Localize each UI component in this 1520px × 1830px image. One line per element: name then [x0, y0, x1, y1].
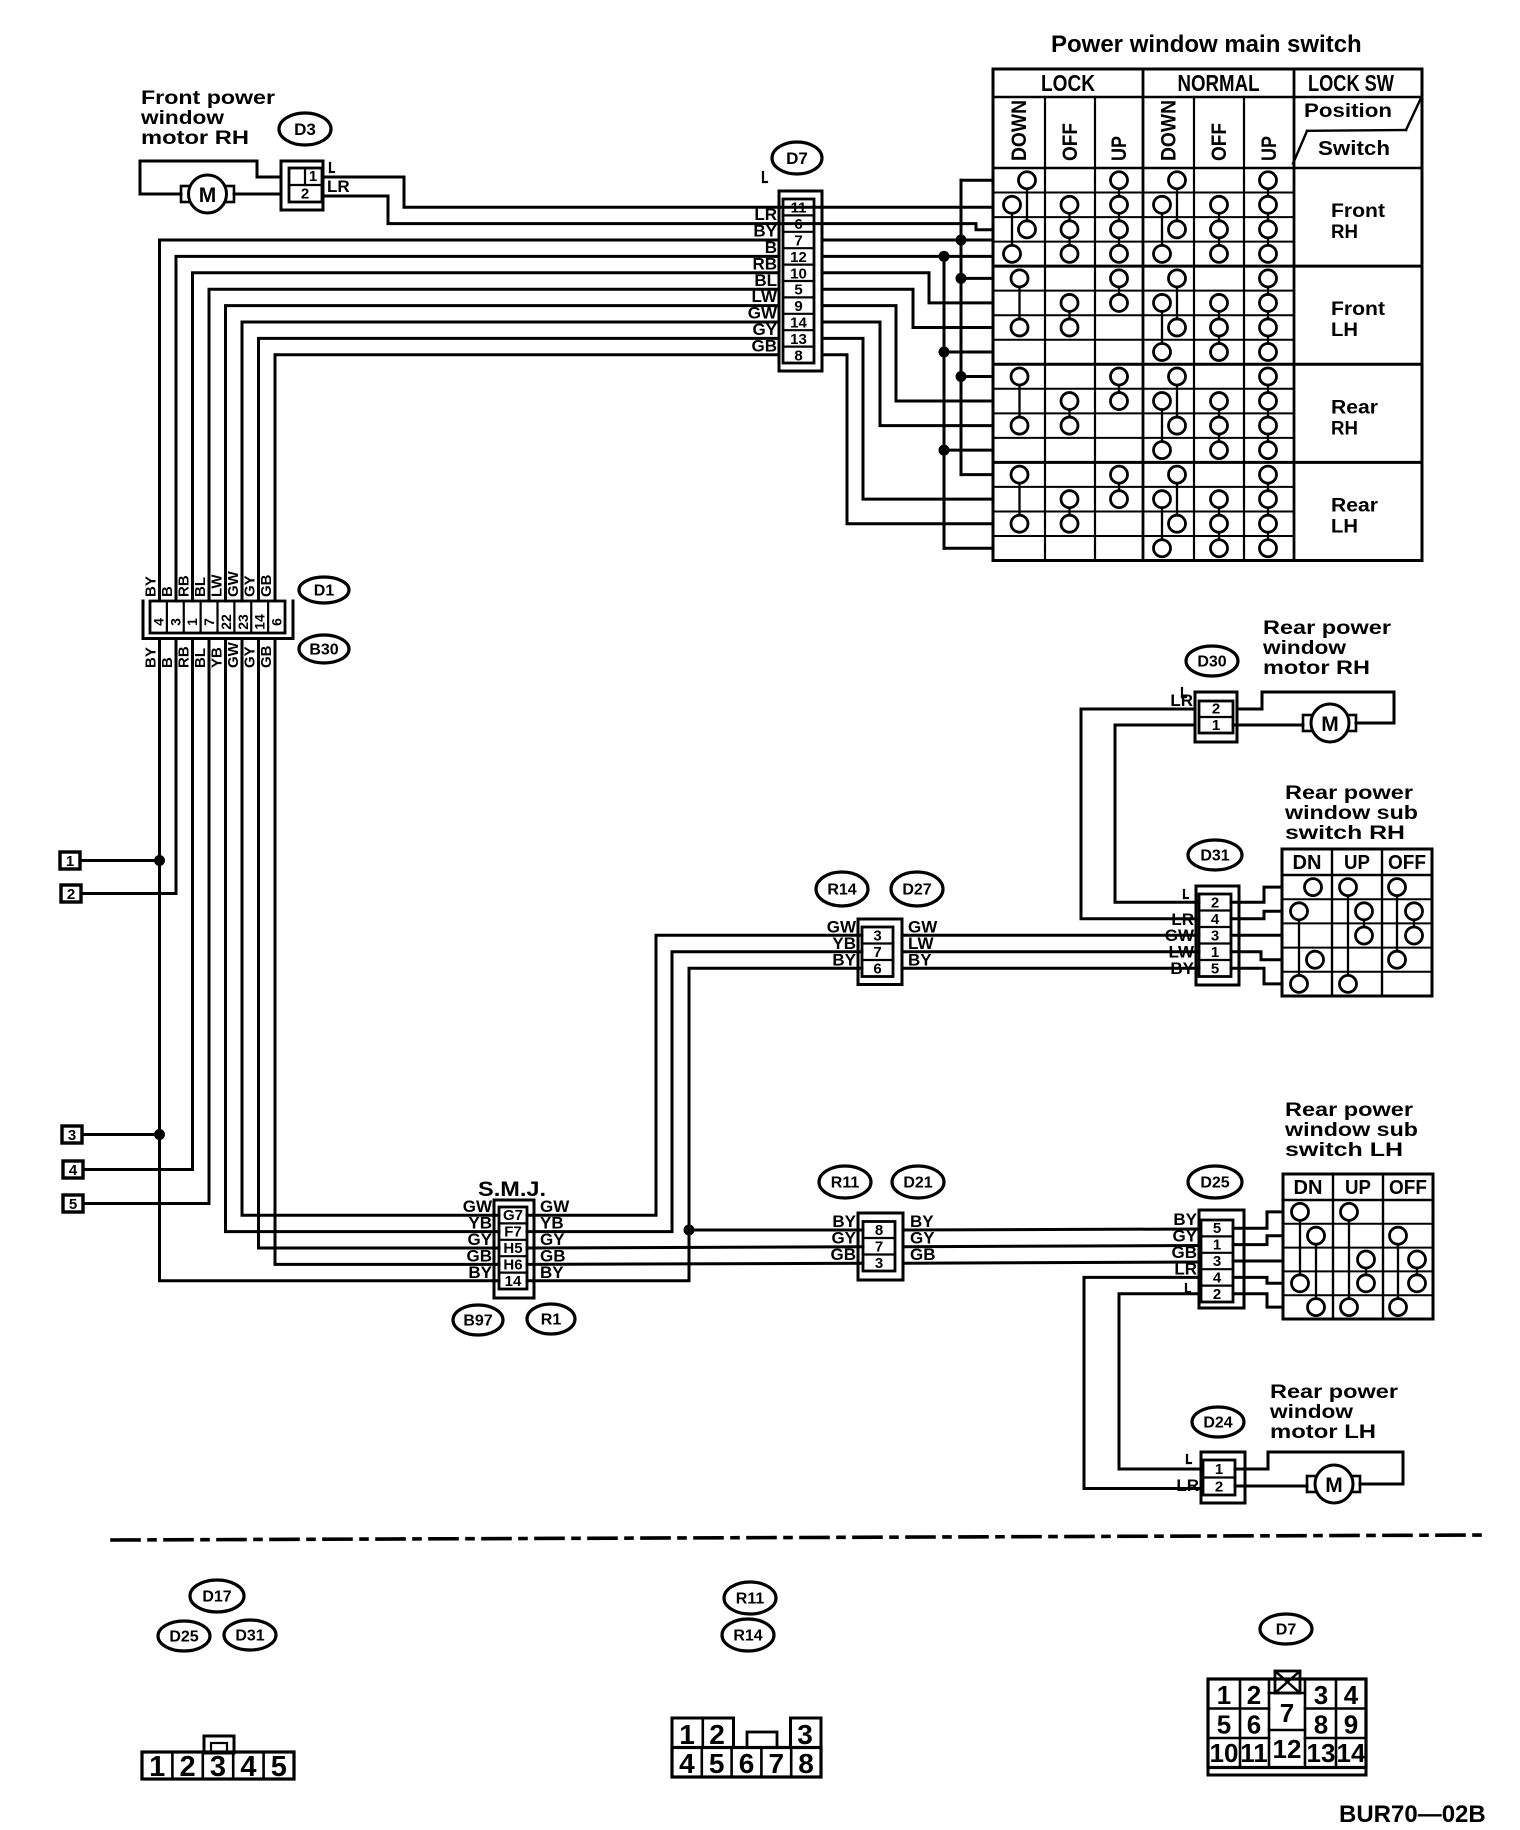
- svg-text:OFF: OFF: [1389, 1177, 1427, 1199]
- svg-text:LR: LR: [327, 177, 350, 196]
- svg-text:R1: R1: [541, 1312, 562, 1329]
- label D7 ellipse (bottom): [1260, 1614, 1312, 1644]
- label: Rear power window motor RH: [1262, 618, 1392, 679]
- svg-text:6: 6: [873, 960, 881, 977]
- svg-text:3: 3: [1211, 927, 1219, 944]
- svg-text:3: 3: [68, 1127, 76, 1144]
- svg-text:2: 2: [1213, 1286, 1221, 1303]
- wire color labels D21 left: [831, 1212, 857, 1264]
- wire GW: B30 down to S.M.J. pin G7: [242, 639, 499, 1216]
- svg-text:Front: Front: [1331, 299, 1386, 320]
- label B97 ellipse: [453, 1305, 503, 1335]
- svg-text:UP: UP: [1345, 1177, 1371, 1199]
- label: Rear power window motor LH: [1269, 1382, 1399, 1443]
- svg-text:switch RH: switch RH: [1285, 823, 1405, 844]
- wire from motor RH to D3 pin 2: [234, 193, 281, 196]
- svg-text:11: 11: [1240, 1738, 1268, 1768]
- svg-text:10: 10: [790, 265, 807, 282]
- svg-text:5: 5: [1217, 1710, 1231, 1740]
- wire D7 pin10 to table row6: [822, 273, 993, 303]
- svg-text:3: 3: [797, 1719, 813, 1750]
- svg-text:1: 1: [1217, 1680, 1231, 1710]
- svg-text:LOCK: LOCK: [1041, 70, 1095, 96]
- svg-text:4: 4: [69, 1162, 78, 1179]
- svg-text:22: 22: [218, 614, 234, 630]
- connector R11/D21: [858, 1213, 903, 1280]
- label D31 ellipse: [1188, 840, 1242, 870]
- svg-text:window sub: window sub: [1284, 803, 1418, 824]
- svg-text:GW: GW: [225, 641, 242, 668]
- svg-text:D17: D17: [202, 1589, 231, 1606]
- drawing number BUR70-02B: [1339, 1801, 1486, 1828]
- svg-text:4: 4: [240, 1751, 256, 1783]
- wire LR: D3 pin1 to D7 pin11: [323, 163, 822, 207]
- svg-text:7: 7: [875, 1238, 883, 1255]
- svg-text:Position: Position: [1304, 101, 1392, 122]
- svg-text:window: window: [1269, 1402, 1353, 1423]
- label D21 ellipse: [892, 1166, 944, 1198]
- junction dots on bus A and bus B: [939, 235, 967, 456]
- svg-text:GB: GB: [258, 574, 275, 597]
- svg-text:motor RH: motor RH: [141, 128, 249, 149]
- label: Front power window motor RH: [140, 88, 276, 149]
- wire GY: D21 to D25 pin 1: [903, 1246, 1199, 1247]
- svg-text:6: 6: [739, 1748, 755, 1779]
- wire BY: S.M.J. to D27 pin 6 with branch junction to R11 pin 8: [527, 968, 863, 1281]
- svg-text:5: 5: [1211, 960, 1219, 977]
- wire RB: D7 to D1 pin: [193, 273, 780, 601]
- rear sub switch LH contacts: [1292, 1203, 1426, 1315]
- wire color labels at D7 left side: [748, 172, 778, 355]
- svg-text:4: 4: [1344, 1680, 1359, 1710]
- wire D24 pin2 to motor: [1235, 1485, 1307, 1488]
- Position / Switch diagonal flag cell: [1293, 98, 1421, 164]
- connector D31: [1196, 886, 1239, 985]
- connector D30: [1195, 692, 1237, 742]
- svg-text:1: 1: [66, 853, 74, 870]
- svg-text:2: 2: [180, 1751, 196, 1783]
- svg-text:7: 7: [794, 233, 802, 250]
- wire node4 to RB line: [83, 1168, 193, 1171]
- svg-text:motor LH: motor LH: [1270, 1422, 1376, 1443]
- svg-text:D7: D7: [1276, 1622, 1297, 1639]
- wire GB: D7 to D1 pin: [275, 355, 779, 601]
- svg-text:RH: RH: [1331, 418, 1358, 439]
- svg-text:2: 2: [301, 186, 309, 203]
- wire node2 to B line: [81, 892, 176, 895]
- svg-text:Front: Front: [1331, 201, 1386, 222]
- wire D7 pin14 to table row11: [822, 322, 993, 426]
- label D1 ellipse: [299, 577, 349, 603]
- svg-text:3: 3: [167, 618, 183, 626]
- svg-text:Rear power: Rear power: [1263, 618, 1392, 639]
- label D24 ellipse: [1192, 1407, 1244, 1437]
- connector D1 / B30 (bulkhead): [143, 601, 293, 639]
- switch contact circles and links, group Rear LH: [1011, 466, 1277, 557]
- wire BY: D27 to D31 pin 5: [902, 967, 1199, 970]
- wire BL: D7 to D1 pin: [209, 289, 779, 601]
- wires D25 pins to LH sub table rows: [1233, 1212, 1283, 1307]
- svg-text:D31: D31: [1200, 848, 1229, 865]
- rear sub switch LH table grid: [1283, 1174, 1433, 1319]
- svg-text:OFF: OFF: [1388, 852, 1426, 874]
- wire color labels S.M.J. left: [463, 1197, 493, 1282]
- svg-text:Power window main switch: Power window main switch: [1051, 31, 1362, 58]
- svg-text:motor RH: motor RH: [1263, 658, 1370, 679]
- svg-text:Switch: Switch: [1318, 138, 1390, 160]
- svg-text:13: 13: [1307, 1738, 1336, 1768]
- svg-text:14: 14: [505, 1273, 522, 1290]
- label R14 ellipse: [816, 872, 868, 906]
- motor M front RH: [181, 175, 234, 213]
- motor M rear RH: [1303, 704, 1356, 742]
- svg-text:D3: D3: [294, 120, 316, 139]
- svg-text:BY: BY: [143, 576, 160, 597]
- wire GB: B30 down to S.M.J. pin H6: [275, 639, 499, 1265]
- svg-text:2: 2: [1211, 894, 1219, 911]
- svg-text:Rear: Rear: [1331, 397, 1379, 418]
- svg-text:5: 5: [709, 1748, 725, 1779]
- svg-text:12: 12: [790, 249, 807, 266]
- wire node5 to BL line: [83, 1202, 209, 1205]
- svg-text:B: B: [159, 657, 176, 668]
- connector view D7 14-pin: [1208, 1671, 1366, 1775]
- label D25 ellipse: [1188, 1166, 1242, 1198]
- title: Power window main switch: [1051, 31, 1362, 58]
- motor M rear LH: [1307, 1465, 1360, 1503]
- label: Rear power window sub switch LH: [1284, 1100, 1418, 1161]
- wire D30 pin1 to D31 pin2: [1115, 725, 1199, 902]
- svg-text:RH: RH: [1331, 222, 1358, 243]
- svg-text:1: 1: [1215, 1461, 1223, 1478]
- svg-text:GY: GY: [242, 575, 259, 597]
- svg-text:1: 1: [149, 1751, 165, 1783]
- wire color label LR at D30: [1170, 688, 1193, 710]
- svg-text:4: 4: [150, 618, 166, 626]
- wire LW: D27 to D31 pin 1: [902, 950, 1199, 953]
- svg-text:BY: BY: [1170, 959, 1194, 978]
- svg-text:DOWN: DOWN: [1008, 100, 1031, 161]
- svg-text:3: 3: [1314, 1680, 1328, 1710]
- svg-text:switch LH: switch LH: [1285, 1140, 1403, 1161]
- wire GY: S.M.J. to R11 pin 7: [527, 1247, 863, 1248]
- wire bus B vertical (DOWN common): [944, 256, 993, 548]
- wire GB: D21 to D25 pin 3: [903, 1262, 1199, 1263]
- main switch table grid: [993, 69, 1422, 561]
- svg-text:B: B: [159, 586, 176, 597]
- wire D7 pin6 to table row3: [822, 224, 993, 230]
- label D27 ellipse: [891, 872, 943, 906]
- wire LW: D7 to D1 pin: [226, 306, 780, 601]
- wire LR: D30 pin2 to D31 pin4: [1081, 709, 1199, 919]
- node box 5: [63, 1195, 83, 1213]
- wires D31 pins to RH sub table rows: [1231, 887, 1282, 984]
- wire bus A tap to table row9: [961, 375, 993, 378]
- wire BL: B30 down to node 5: [208, 639, 211, 1204]
- svg-text:7: 7: [873, 944, 881, 961]
- svg-text:1: 1: [1213, 1237, 1221, 1254]
- wire color labels at D31 left: [1165, 890, 1195, 978]
- svg-text:5: 5: [271, 1751, 287, 1783]
- connector S.M.J.: [478, 1178, 546, 1298]
- svg-text:Rear: Rear: [1331, 495, 1379, 516]
- svg-text:12: 12: [1273, 1734, 1302, 1764]
- svg-text:GB: GB: [831, 1245, 857, 1264]
- wire D7 pin8 to table row15: [822, 355, 993, 524]
- svg-text:9: 9: [1344, 1710, 1358, 1740]
- wire BY: B30 down to S.M.J. pin 14: [160, 639, 500, 1281]
- svg-text:D31: D31: [235, 1628, 264, 1645]
- svg-text:D30: D30: [1197, 654, 1226, 671]
- svg-text:B97: B97: [463, 1313, 492, 1330]
- wire color labels below B30: [143, 641, 276, 668]
- connector D25: [1199, 1210, 1244, 1308]
- svg-text:8: 8: [798, 1748, 814, 1779]
- table header LOCK / NORMAL / LOCK SW: [1041, 70, 1394, 96]
- wire GY: B30 down to S.M.J. pin H5: [259, 639, 500, 1249]
- svg-text:3: 3: [1213, 1253, 1221, 1270]
- svg-text:M: M: [1321, 713, 1339, 736]
- label D30 ellipse: [1186, 646, 1238, 676]
- svg-text:R11: R11: [736, 1591, 765, 1608]
- svg-text:8: 8: [875, 1222, 883, 1239]
- wire LR: D25 pin4 to D24 pin2: [1084, 1277, 1201, 1488]
- wire bus A tap to table row5: [961, 277, 993, 280]
- svg-text:BL: BL: [192, 648, 209, 668]
- svg-text:1: 1: [309, 168, 317, 185]
- wire D30 pin1 to motor: [1233, 724, 1303, 727]
- label R14 ellipse (bottom): [722, 1619, 774, 1651]
- wire D25 pin2 to D24 pin1: [1119, 1294, 1201, 1469]
- wire RB: B30 down to node 4: [191, 639, 194, 1170]
- svg-text:M: M: [199, 184, 217, 207]
- rotated column labels DOWN OFF UP (lock) DOWN OFF UP (normal): [1008, 100, 1281, 161]
- node box 2: [61, 885, 81, 903]
- svg-text:2: 2: [1247, 1680, 1261, 1710]
- svg-text:GB: GB: [258, 645, 275, 668]
- node box 4: [63, 1161, 83, 1179]
- svg-text:DN: DN: [1294, 1177, 1323, 1199]
- svg-text:2: 2: [67, 886, 75, 903]
- wire node3 to BY line with junction: [82, 1129, 165, 1140]
- svg-text:BY: BY: [143, 647, 160, 668]
- svg-text:BUR70—02B: BUR70—02B: [1339, 1801, 1486, 1828]
- svg-text:window: window: [140, 108, 224, 129]
- wire color labels D27 left: [827, 917, 857, 969]
- svg-text:5: 5: [794, 282, 802, 299]
- connector D24: [1201, 1452, 1245, 1503]
- svg-text:R11: R11: [831, 1175, 860, 1192]
- svg-text:Front power: Front power: [141, 88, 276, 109]
- wire color label LR at D24: [1176, 1455, 1199, 1495]
- svg-text:UP: UP: [1344, 852, 1370, 874]
- label R1 ellipse: [527, 1304, 575, 1334]
- switch contact circles and links, group Front RH: [1004, 172, 1277, 263]
- svg-text:6: 6: [1247, 1710, 1261, 1740]
- svg-text:GW: GW: [225, 570, 242, 597]
- svg-text:14: 14: [790, 315, 807, 332]
- svg-text:1: 1: [1211, 944, 1219, 961]
- svg-text:BY: BY: [832, 950, 856, 969]
- svg-text:4: 4: [1211, 911, 1220, 928]
- wire GW: S.M.J. to D27 pin 3: [527, 935, 862, 1215]
- svg-text:7: 7: [1280, 1698, 1294, 1728]
- svg-text:DOWN: DOWN: [1158, 100, 1181, 161]
- label R11 ellipse (bottom): [724, 1582, 776, 1614]
- svg-text:F7: F7: [504, 1224, 522, 1241]
- svg-text:D7: D7: [786, 149, 808, 168]
- svg-text:D25: D25: [1200, 1175, 1229, 1192]
- svg-text:D27: D27: [902, 882, 931, 899]
- wire GW: D7 to D1 pin: [242, 322, 779, 601]
- wire BY: D7 to D1 pin: [160, 240, 780, 601]
- svg-text:D25: D25: [169, 1629, 198, 1646]
- svg-text:5: 5: [1213, 1220, 1221, 1237]
- wire bus A vertical (UP common): [961, 180, 993, 474]
- svg-text:R14: R14: [733, 1628, 762, 1645]
- row group labels Front RH / Front LH / Rear RH / Rear LH: [1331, 201, 1386, 537]
- svg-text:Rear power: Rear power: [1270, 1382, 1399, 1403]
- svg-text:OFF: OFF: [1059, 123, 1082, 161]
- svg-text:3: 3: [875, 1255, 883, 1272]
- svg-text:Rear power: Rear power: [1285, 783, 1414, 804]
- svg-text:1: 1: [184, 618, 200, 626]
- svg-text:2: 2: [1212, 701, 1220, 718]
- svg-text:BL: BL: [192, 577, 209, 597]
- wire bus B tap to table row8: [944, 350, 993, 353]
- label B30 ellipse: [299, 635, 349, 663]
- svg-text:LW: LW: [209, 574, 226, 597]
- wire D7 pin11 to table row2: [822, 206, 993, 209]
- svg-text:YB: YB: [209, 647, 226, 668]
- svg-text:9: 9: [794, 298, 802, 315]
- svg-text:7: 7: [201, 618, 217, 626]
- wire D7 pin9 to table row10: [822, 306, 993, 401]
- wire D7 pin7 to table (bus A junction): [822, 239, 993, 242]
- svg-text:RB: RB: [176, 575, 193, 597]
- wire BY: D21 to D25 pin 5: [903, 1229, 1199, 1230]
- svg-text:B30: B30: [309, 642, 338, 659]
- node box 1: [60, 852, 80, 870]
- svg-text:UP: UP: [1108, 136, 1131, 161]
- wire color labels D21 right: [910, 1212, 936, 1264]
- svg-text:23: 23: [235, 614, 251, 630]
- svg-text:LOCK SW: LOCK SW: [1308, 70, 1394, 96]
- wire color labels D27 right: [908, 917, 938, 969]
- wire BY: D3 pin2 to D7 pin6: [323, 196, 822, 224]
- svg-text:RB: RB: [176, 646, 193, 668]
- svg-text:window sub: window sub: [1284, 1120, 1418, 1141]
- svg-text:G7: G7: [503, 1207, 523, 1224]
- svg-text:DN: DN: [1293, 852, 1322, 874]
- wire D24 pin1 to motor (upper loop): [1235, 1452, 1403, 1484]
- wire GY: D7 to D1 pin: [259, 338, 780, 601]
- label: Rear power window sub switch RH: [1284, 783, 1418, 844]
- wire YB: B30 down to S.M.J. pin F7: [226, 639, 500, 1232]
- wire GW: D27 to D31 pin 3: [902, 934, 1199, 937]
- svg-text:2: 2: [709, 1719, 725, 1750]
- svg-text:D1: D1: [314, 583, 335, 600]
- connector D7 (to main switch): [779, 191, 822, 371]
- wire B: D7 to D1 pin: [176, 256, 779, 601]
- switch contact circles and links, group Rear RH: [1011, 368, 1277, 459]
- svg-text:window: window: [1262, 638, 1346, 659]
- wire node1 to BY line with junction: [80, 855, 165, 866]
- svg-text:10: 10: [1210, 1738, 1239, 1768]
- wire B: B30 down to node 2: [175, 639, 178, 894]
- switch contact circles and links, group Front LH: [1011, 270, 1277, 361]
- svg-text:BY: BY: [468, 1263, 492, 1282]
- svg-text:UP: UP: [1258, 136, 1281, 161]
- connector view R11/R14 8-pin: [672, 1718, 821, 1779]
- svg-text:LR: LR: [1174, 1260, 1197, 1279]
- label D31 ellipse (bottom): [224, 1620, 276, 1650]
- wire D30 pin2 to motor (upper loop): [1237, 692, 1394, 723]
- wire color labels at D25 left: [1172, 1210, 1198, 1292]
- svg-text:D24: D24: [1203, 1415, 1232, 1432]
- svg-text:GY: GY: [242, 646, 259, 668]
- wire D7 pin12 to table row4 (bus B junction): [822, 255, 993, 258]
- svg-text:LH: LH: [1331, 320, 1358, 341]
- wire YB: S.M.J. to D27 pin 7: [527, 952, 862, 1232]
- connector R14/D27: [858, 919, 902, 985]
- svg-text:LR: LR: [1176, 1476, 1199, 1495]
- svg-text:5: 5: [69, 1196, 77, 1213]
- svg-text:8: 8: [794, 347, 802, 364]
- svg-text:4: 4: [1213, 1269, 1222, 1286]
- label D3 ellipse: [279, 113, 331, 145]
- svg-text:LH: LH: [1331, 516, 1358, 537]
- svg-text:3: 3: [210, 1751, 226, 1783]
- svg-text:1: 1: [679, 1719, 695, 1750]
- rear sub switch RH contacts: [1291, 879, 1423, 993]
- svg-text:D21: D21: [903, 1175, 932, 1192]
- wire D7 pin13 to table row14: [822, 338, 993, 499]
- wire color labels above D1: [143, 570, 276, 597]
- svg-text:7: 7: [769, 1748, 785, 1779]
- svg-text:2: 2: [1215, 1479, 1223, 1496]
- svg-text:3: 3: [873, 927, 881, 944]
- svg-text:8: 8: [1314, 1710, 1328, 1740]
- svg-text:NORMAL: NORMAL: [1178, 70, 1260, 96]
- connector view D17/D25/D31 5-pin: [142, 1736, 294, 1783]
- wire color labels S.M.J. right: [540, 1197, 570, 1282]
- wire GB: S.M.J. to R11 pin 3: [527, 1263, 863, 1264]
- svg-text:1: 1: [1212, 717, 1220, 734]
- svg-text:H6: H6: [503, 1256, 522, 1273]
- label D17 ellipse: [190, 1580, 244, 1612]
- label R11 ellipse: [819, 1166, 871, 1198]
- connector D3: [281, 161, 323, 210]
- svg-text:R14: R14: [827, 882, 856, 899]
- node box 3: [62, 1126, 82, 1144]
- svg-text:6: 6: [269, 618, 285, 626]
- rear sub switch RH table grid: [1282, 849, 1432, 996]
- svg-text:OFF: OFF: [1208, 123, 1231, 161]
- svg-text:14: 14: [1337, 1738, 1366, 1768]
- svg-text:13: 13: [790, 331, 807, 348]
- svg-text:H5: H5: [503, 1240, 522, 1257]
- label D7 ellipse: [772, 142, 822, 174]
- wire D7 pin5 to table row7: [822, 289, 993, 327]
- wire bus B tap to table row12: [944, 449, 993, 452]
- svg-text:14: 14: [252, 614, 268, 630]
- svg-text:4: 4: [679, 1748, 695, 1779]
- label D25 ellipse (bottom): [158, 1621, 210, 1651]
- svg-text:Rear power: Rear power: [1285, 1100, 1414, 1121]
- wire from motor RH to D3 pin 1 (upper loop): [140, 161, 281, 194]
- dash-dot separator line: [112, 1535, 1487, 1540]
